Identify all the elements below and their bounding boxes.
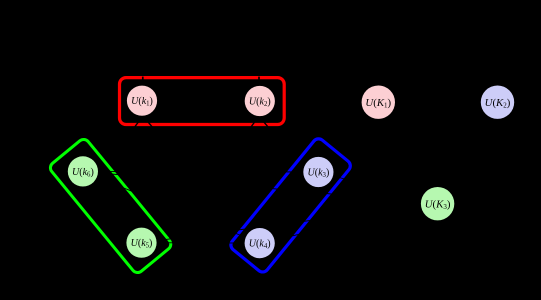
svg-text:U(k5): U(k5) [131,238,153,250]
svg-text:U(k1): U(k1) [131,96,153,108]
svg-text:U(k2): U(k2) [249,97,271,109]
svg-text:U(k3): U(k3) [308,168,330,180]
svg-text:U(K3): U(K3) [425,199,451,212]
svg-text:U(k6): U(k6) [72,167,94,179]
svg-text:U(k4): U(k4) [249,239,271,251]
svg-text:U(K2): U(K2) [485,97,511,110]
svg-text:U(K1): U(K1) [365,97,391,110]
